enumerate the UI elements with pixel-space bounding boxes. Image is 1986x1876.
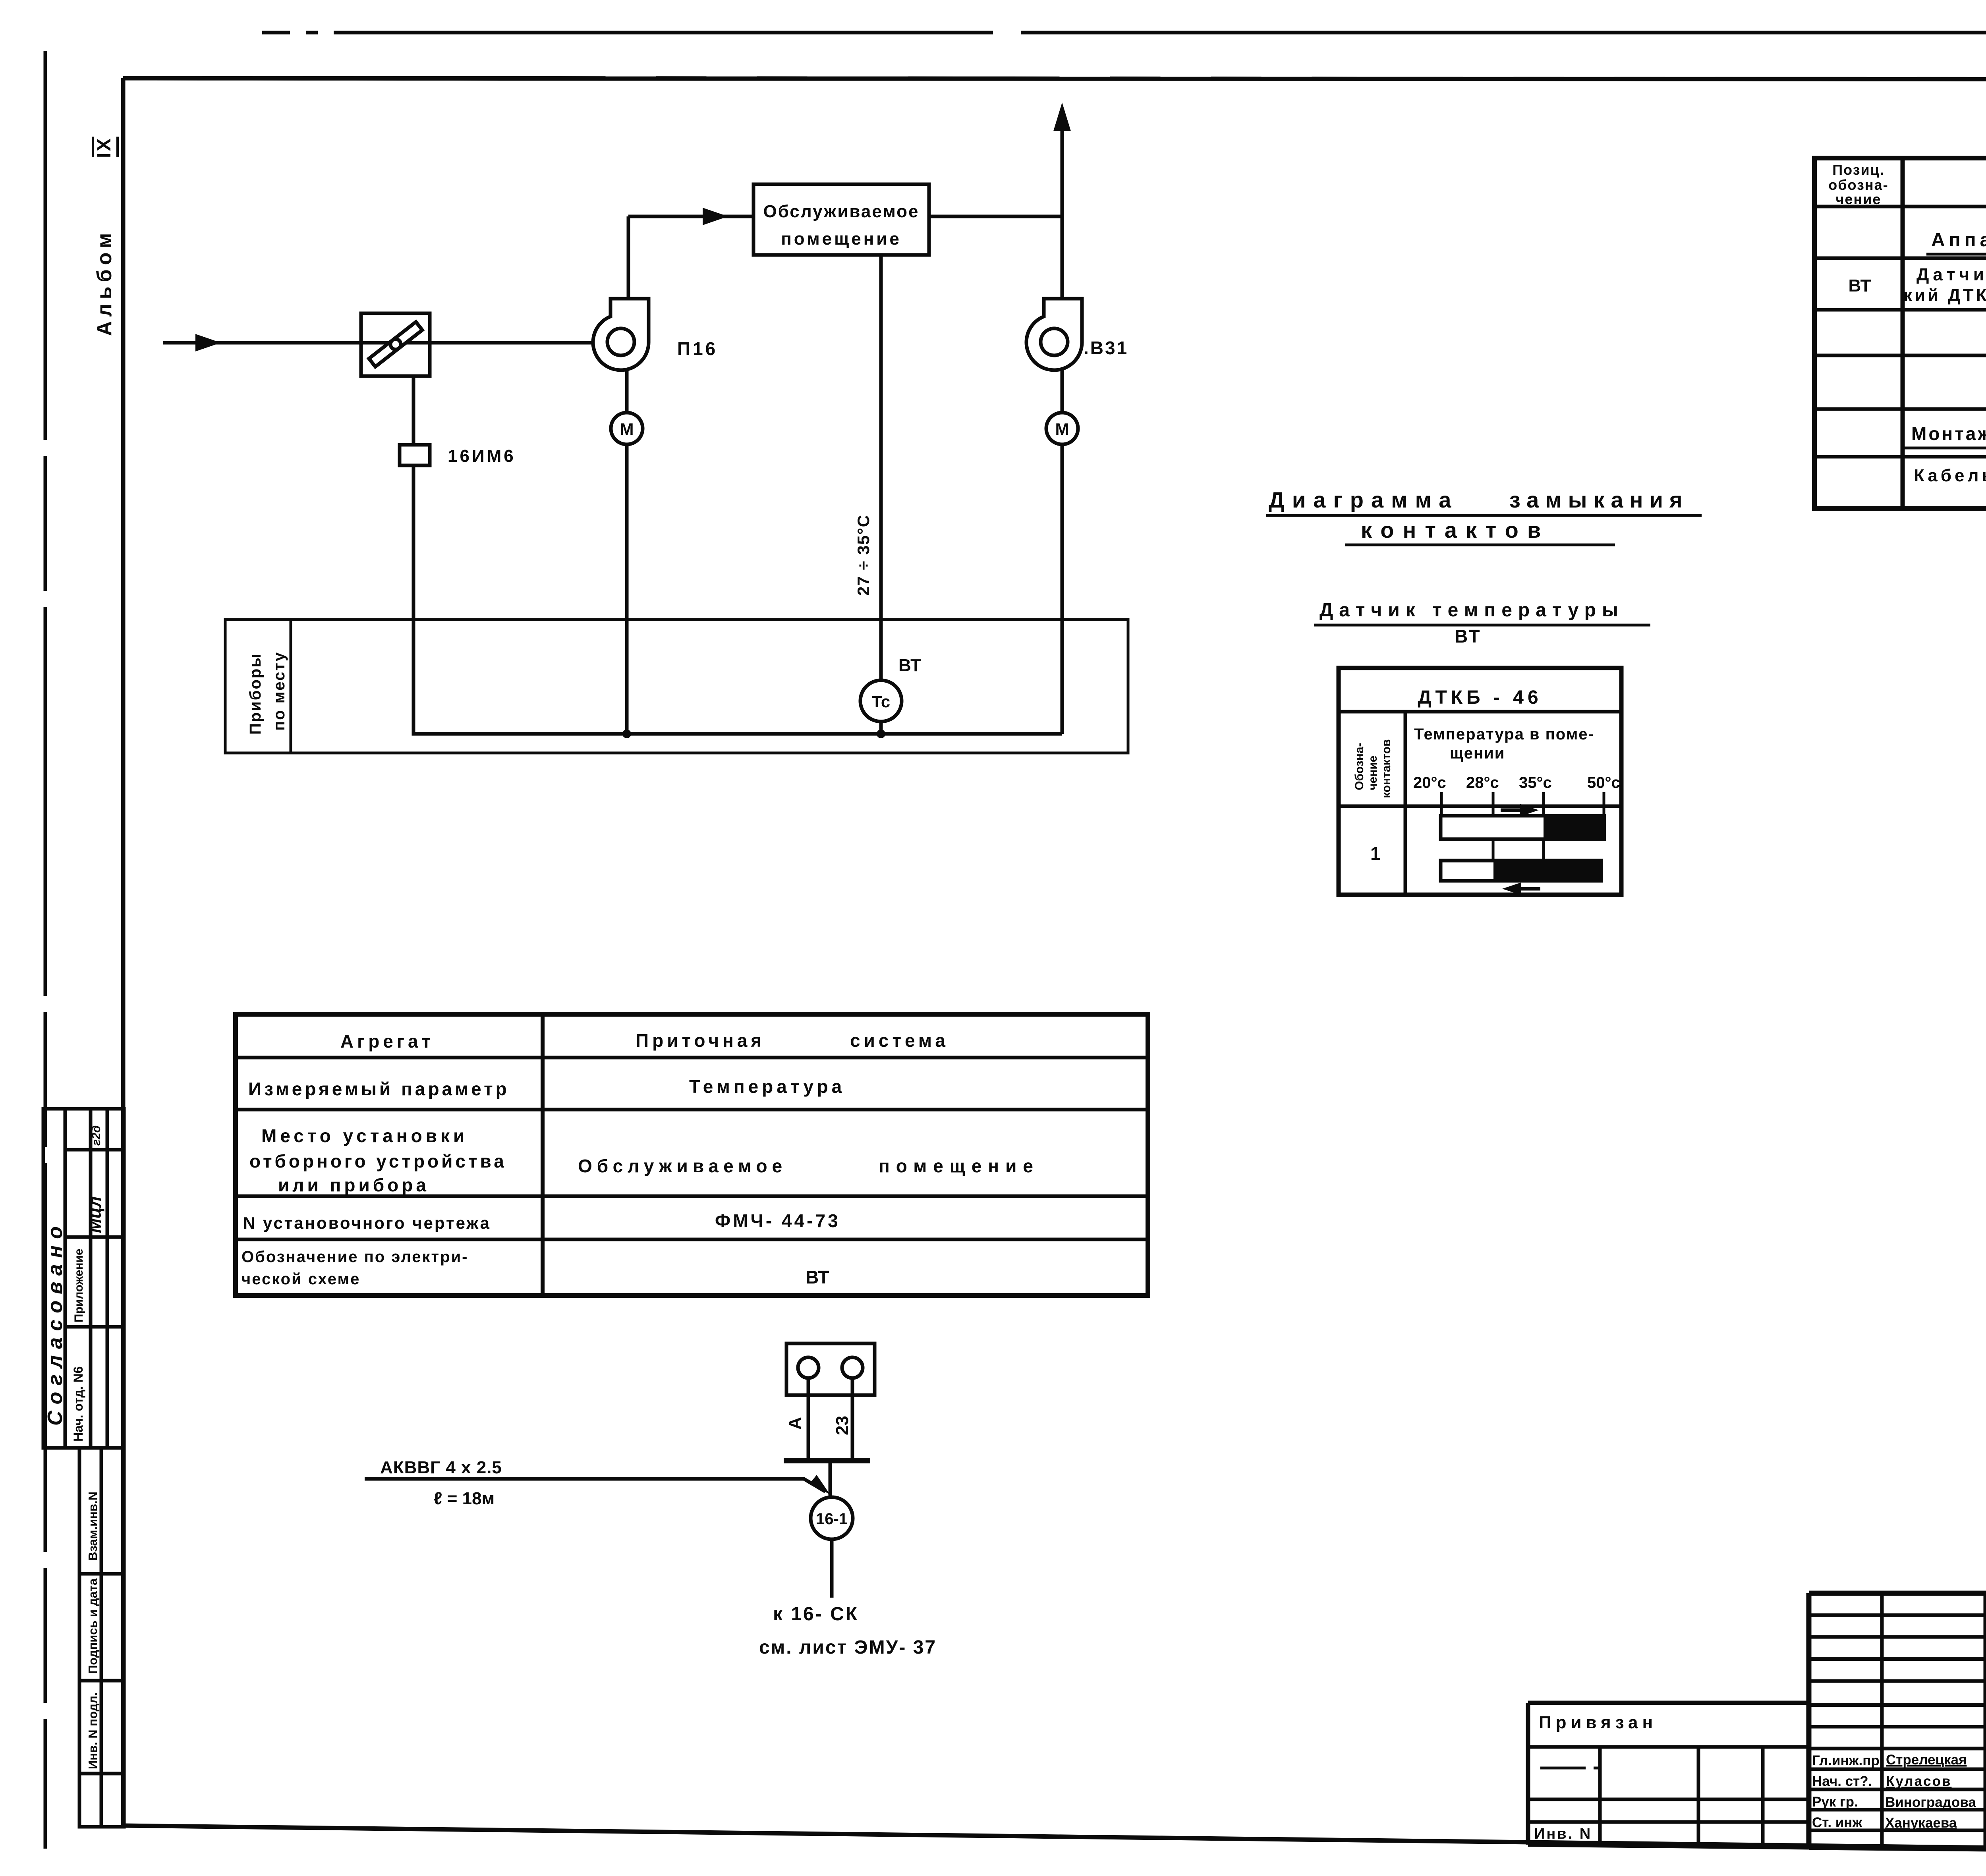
svg-text:Обозначение по электри-: Обозначение по электри- — [241, 1248, 468, 1266]
svg-text:щении: щении — [1450, 745, 1505, 762]
svg-text:Привязан: Привязан — [1539, 1713, 1657, 1732]
svg-text:Аппаратура: Аппаратура — [1931, 230, 1986, 251]
svg-text:АКВВГ 4 х 2.5: АКВВГ 4 х 2.5 — [380, 1458, 502, 1477]
svg-text:отборного устройства: отборного устройства — [249, 1151, 507, 1172]
svg-text:Место установки: Место установки — [261, 1125, 468, 1146]
svg-text:см. лист ЭМУ- 37: см. лист ЭМУ- 37 — [759, 1637, 937, 1658]
svg-text:Агрегат: Агрегат — [340, 1031, 434, 1052]
svg-text:помещение: помещение — [781, 229, 902, 249]
svg-text:Нач. ст?.: Нач. ст?. — [1812, 1774, 1872, 1789]
svg-text:ческой схеме: ческой схеме — [241, 1270, 360, 1288]
svg-text:Инв. N подл.: Инв. N подл. — [86, 1692, 100, 1769]
svg-text:Обслуживаемое: Обслуживаемое — [578, 1156, 787, 1176]
svg-text:Куласов: Куласов — [1886, 1774, 1951, 1789]
svg-text:23: 23 — [833, 1416, 852, 1435]
svg-text:Рук гр.: Рук гр. — [1812, 1794, 1858, 1810]
svg-text:контактов: контактов — [1361, 517, 1549, 542]
svg-text:35°с: 35°с — [1519, 774, 1552, 791]
svg-text:Ханукаева: Ханукаева — [1885, 1815, 1957, 1831]
svg-text:к 16- СК: к 16- СК — [773, 1604, 859, 1625]
svg-text:ВТ: ВТ — [1849, 276, 1871, 295]
svg-text:А: А — [785, 1417, 805, 1430]
svg-text:П16: П16 — [677, 338, 718, 359]
svg-text:Инв. N: Инв. N — [1534, 1826, 1592, 1842]
svg-text:50°с: 50°с — [1587, 774, 1620, 791]
svg-text:Измеряемый параметр: Измеряемый параметр — [248, 1079, 510, 1099]
svg-text:N установочного чертежа: N установочного чертежа — [243, 1214, 491, 1232]
svg-text:16ИМ6: 16ИМ6 — [448, 446, 516, 466]
svg-text:Взам.инв.N: Взам.инв.N — [86, 1492, 100, 1561]
svg-text:Обслуживаемое: Обслуживаемое — [763, 202, 919, 221]
svg-text:Датчик температуры биметаллич: Датчик температуры биметалличес- — [1916, 265, 1986, 284]
svg-text:27 ÷ 35°С: 27 ÷ 35°С — [854, 514, 873, 596]
svg-text:Мцл: Мцл — [85, 1197, 105, 1233]
svg-text:М: М — [620, 420, 634, 438]
svg-text:ВТ: ВТ — [898, 656, 921, 675]
svg-text:обозна-: обозна- — [1828, 177, 1888, 193]
svg-text:по месту: по месту — [270, 651, 288, 731]
svg-text:16-1: 16-1 — [816, 1510, 848, 1528]
svg-text:чение: чение — [1836, 191, 1882, 207]
svg-text:Позиц.: Позиц. — [1832, 162, 1885, 178]
svg-text:Альбом: Альбом — [93, 229, 116, 336]
svg-text:Нач. отд. N6: Нач. отд. N6 — [71, 1366, 85, 1442]
svg-text:контактов: контактов — [1380, 739, 1393, 798]
svg-text:1: 1 — [1370, 843, 1381, 864]
svg-text:Гл.инж.пр: Гл.инж.пр — [1812, 1753, 1880, 1768]
svg-text:Виноградова: Виноградова — [1885, 1795, 1976, 1810]
svg-text:замыкания: замыкания — [1509, 487, 1689, 512]
svg-text:Температура: Температура — [689, 1076, 845, 1097]
svg-text:или прибора: или прибора — [278, 1175, 429, 1195]
svg-text:IX: IX — [94, 137, 115, 158]
svg-text:М: М — [1055, 420, 1069, 438]
svg-text:Подпись и дата: Подпись и дата — [86, 1578, 100, 1674]
svg-text:Диаграмма: Диаграмма — [1269, 487, 1459, 512]
svg-text:20°с: 20°с — [1413, 774, 1446, 791]
svg-text:ВТ: ВТ — [806, 1267, 829, 1287]
svg-text:Обозна-: Обозна- — [1353, 743, 1366, 790]
svg-text:.В31: .В31 — [1084, 338, 1128, 358]
svg-text:Согласовано: Согласовано — [44, 1220, 67, 1426]
svg-text:Приборы: Приборы — [247, 652, 264, 735]
svg-text:чение: чение — [1366, 756, 1379, 790]
svg-text:Приточная: Приточная — [636, 1030, 765, 1051]
svg-text:ДТКБ - 46: ДТКБ - 46 — [1418, 687, 1542, 708]
svg-text:ВТ: ВТ — [1455, 626, 1482, 647]
svg-text:система: система — [850, 1030, 949, 1051]
svg-text:Тс: Тс — [872, 692, 890, 711]
svg-text:ФМЧ- 44-73: ФМЧ- 44-73 — [715, 1210, 840, 1231]
svg-text:Стрелецкая: Стрелецкая — [1886, 1752, 1967, 1768]
svg-text:Монтажные: Монтажные — [1911, 423, 1986, 444]
svg-text:г2д: г2д — [90, 1125, 103, 1146]
svg-text:28°с: 28°с — [1466, 774, 1499, 791]
svg-text:помещение: помещение — [879, 1156, 1039, 1176]
svg-text:Датчик температуры: Датчик температуры — [1319, 600, 1624, 621]
svg-text:Приложение: Приложение — [72, 1249, 85, 1322]
svg-text:ℓ = 18м: ℓ = 18м — [434, 1489, 495, 1508]
svg-text:Кабель: Кабель — [1914, 466, 1986, 485]
svg-text:кий ДТКБ-46. Пределы измер.: кий ДТКБ-46. Пределы измер. 20°... 50°С — [1903, 286, 1986, 305]
svg-text:Ст. инж: Ст. инж — [1812, 1815, 1862, 1830]
svg-text:Температура в поме-: Температура в поме- — [1414, 726, 1594, 743]
